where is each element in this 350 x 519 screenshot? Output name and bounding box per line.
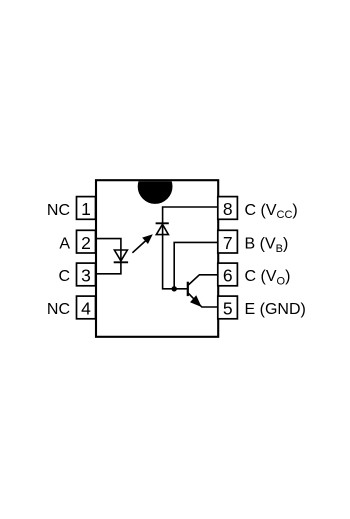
svg-text:1: 1: [81, 199, 91, 219]
photodiode D2 triangle (pointing up at bar): [156, 224, 168, 234]
pin 1 box: [77, 197, 96, 220]
svg-text:7: 7: [223, 233, 233, 253]
wire photodiode anode down to base node: [163, 224, 188, 288]
wire pin2 to LED anode: [96, 239, 121, 250]
LED D1 cathode bar: [114, 261, 128, 263]
pin-1 index notch (filled half-disc on top edge): [138, 169, 173, 204]
svg-text:6: 6: [223, 266, 233, 286]
node junction dot (base node): [172, 286, 177, 291]
pin 4 label NC: [47, 301, 70, 318]
svg-text:8: 8: [223, 199, 233, 219]
svg-text:A: A: [59, 236, 70, 253]
pin 5 label E (GND): [245, 301, 306, 318]
pin 6 box: [218, 263, 238, 286]
svg-text:NC: NC: [47, 301, 70, 318]
package outline U1 (8-pin DIP body): [96, 180, 218, 337]
transistor Q1 emitter + arrow + wire to pin5: [188, 293, 218, 307]
svg-text:C: C: [58, 268, 70, 285]
pin 2 box: [77, 230, 96, 253]
pin 1 label NC: [47, 202, 70, 219]
pin 5 box: [218, 296, 238, 319]
svg-text:2: 2: [81, 233, 91, 253]
pin 3 label C: [58, 268, 70, 285]
svg-text:C (VCC): C (VCC): [245, 202, 298, 221]
pin 4 box: [77, 296, 96, 319]
svg-text:E (GND): E (GND): [245, 301, 306, 318]
transistor Q1 collector + wire to pin6: [188, 275, 218, 285]
LED D1 triangle (anode, pointing down): [114, 250, 127, 261]
pin 7 label B (VB): [245, 236, 289, 255]
photodiode D2 cathode bar: [156, 222, 169, 224]
pin 3 box: [77, 263, 96, 286]
svg-text:C (VO): C (VO): [245, 268, 291, 287]
wire pin7 to base node: [174, 242, 218, 288]
pin 8 label C (VCC): [245, 202, 298, 221]
pin 8 box: [218, 197, 238, 220]
svg-text:4: 4: [81, 299, 91, 319]
LED D1 anode-cathode body wire (through triangle to bar): [120, 250, 122, 262]
svg-text:B (VB): B (VB): [245, 236, 289, 255]
pin 6 label C (VO): [245, 268, 291, 287]
svg-text:3: 3: [81, 266, 91, 286]
svg-text:5: 5: [223, 299, 233, 319]
light-transmission arrow (LED to detector): [132, 235, 152, 253]
svg-text:NC: NC: [47, 202, 70, 219]
wire pin8 to photodiode cathode: [163, 207, 218, 223]
wire LED cathode to pin3: [96, 262, 121, 274]
transistor Q1 base bar: [187, 282, 189, 296]
pin 2 label A: [59, 236, 70, 253]
pin 7 box: [218, 230, 238, 253]
